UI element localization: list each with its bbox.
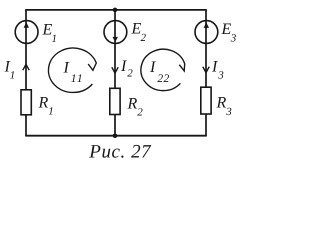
- svg-text:1: 1: [10, 70, 16, 82]
- source E3: [195, 21, 218, 44]
- wire middle branch: [114, 10, 116, 88]
- source E2 EMF arrow (down): [113, 37, 118, 42]
- wire right branch lower: [205, 114, 207, 136]
- source E1 EMF arrow (up): [24, 22, 29, 27]
- svg-text:Рис. 27: Рис. 27: [88, 142, 152, 163]
- svg-text:I: I: [211, 59, 218, 76]
- mesh current I11 loop: [48, 48, 96, 92]
- svg-text:2: 2: [141, 32, 147, 44]
- source E1: [15, 21, 38, 44]
- svg-text:3: 3: [217, 69, 224, 81]
- resistor R2: [110, 88, 120, 114]
- svg-text:1: 1: [52, 33, 58, 45]
- wire right branch: [205, 10, 207, 87]
- svg-text:R: R: [216, 95, 227, 112]
- svg-text:1: 1: [48, 106, 54, 118]
- source E2: [104, 21, 127, 44]
- wire bottom horizontal: [25, 135, 207, 137]
- mesh current I22 loop: [141, 49, 185, 90]
- wire left branch: [25, 10, 27, 90]
- svg-text:22: 22: [157, 73, 169, 85]
- svg-text:R: R: [127, 96, 138, 113]
- svg-text:11: 11: [71, 73, 84, 85]
- svg-text:3: 3: [230, 32, 237, 44]
- node bottom junction: [113, 133, 118, 138]
- svg-text:R: R: [38, 95, 49, 112]
- wire top horizontal: [25, 9, 207, 11]
- arrow I1: [23, 64, 29, 70]
- node top junction: [113, 8, 118, 13]
- source E3 EMF arrow (up): [204, 23, 209, 28]
- svg-text:2: 2: [127, 68, 133, 80]
- svg-text:3: 3: [225, 106, 232, 118]
- wire left branch lower: [25, 115, 27, 136]
- arrow I2: [112, 67, 118, 73]
- svg-text:I: I: [149, 59, 156, 76]
- wire middle branch lower: [114, 115, 116, 136]
- resistor R3: [201, 87, 211, 114]
- arrow I3: [203, 67, 209, 73]
- svg-text:2: 2: [137, 106, 143, 118]
- svg-text:I: I: [63, 60, 70, 77]
- svg-text:I: I: [120, 58, 127, 75]
- resistor R1: [21, 90, 31, 115]
